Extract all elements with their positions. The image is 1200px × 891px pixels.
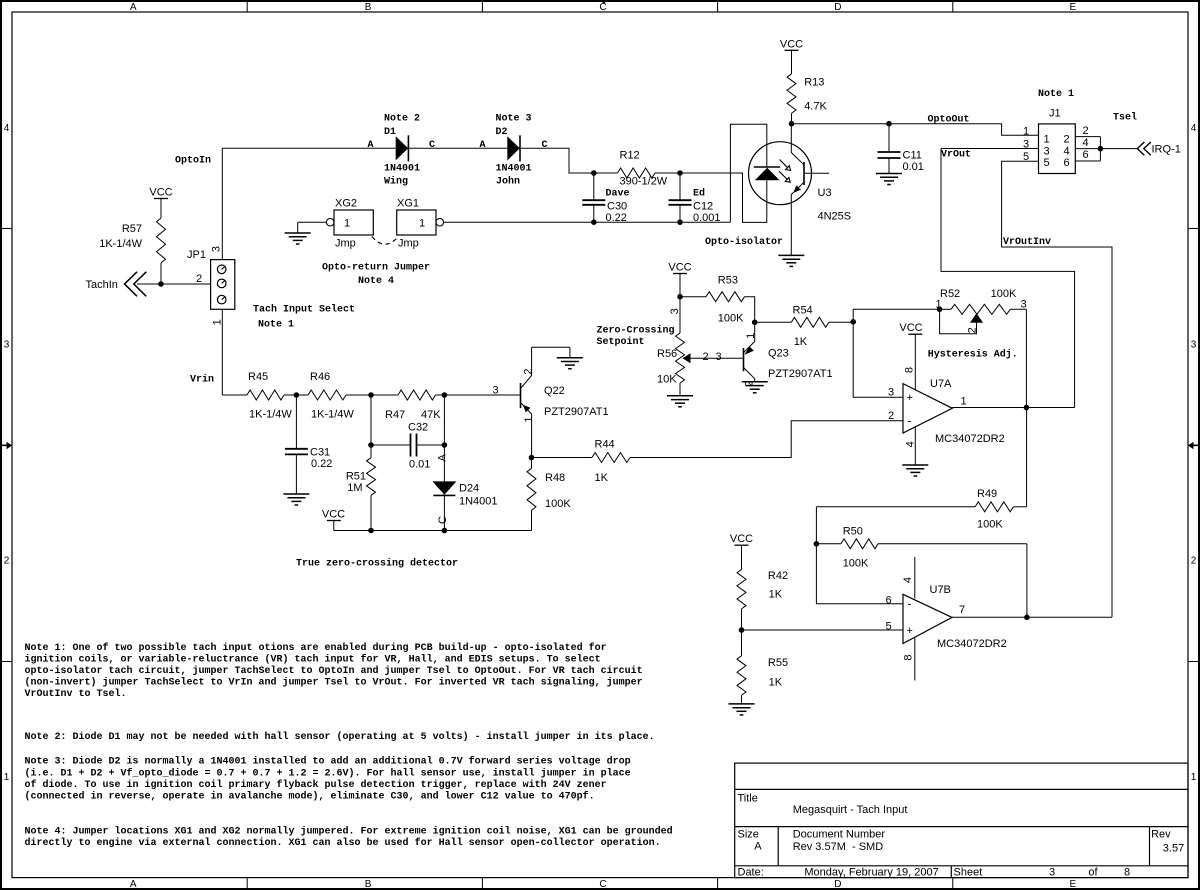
svg-text:Document Number: Document Number [793, 829, 886, 841]
wire VCC to R13 [791, 50, 793, 74]
svg-text:Megasquirt - Tach Input: Megasquirt - Tach Input [793, 804, 908, 816]
svg-text:R52: R52 [940, 288, 960, 300]
svg-text:D: D [834, 2, 841, 13]
transistor Q23 [743, 348, 745, 371]
svg-text:D24: D24 [459, 483, 479, 495]
svg-text:ignition coils, or variable-re: ignition coils, or variable-reluctrance … [25, 654, 601, 666]
svg-text:C: C [429, 140, 435, 151]
ground (C31) [283, 493, 309, 495]
svg-text:PZT2907AT1: PZT2907AT1 [768, 368, 833, 380]
wire D1 to D2 [408, 147, 507, 149]
svg-text:R48: R48 [545, 472, 565, 484]
svg-text:C: C [541, 140, 547, 151]
svg-text:(connected in reverse, operate: (connected in reverse, operate in avalan… [25, 790, 595, 802]
svg-text:J1: J1 [1049, 108, 1061, 120]
svg-text:R51: R51 [346, 471, 366, 483]
wire J1 pin5 lead / VrOutInv [1002, 161, 1112, 617]
svg-text:VrOutInv: VrOutInv [1003, 237, 1051, 248]
svg-text:4: 4 [1063, 145, 1069, 157]
svg-text:3: 3 [715, 351, 721, 363]
svg-text:100K: 100K [545, 498, 571, 510]
svg-text:(non-invert) jumper TachSelect: (non-invert) jumper TachSelect to VrIn a… [25, 677, 643, 689]
svg-text:C12: C12 [693, 201, 713, 213]
svg-text:R13: R13 [804, 77, 824, 89]
node R53/R56 junction [677, 294, 683, 300]
svg-text:IRQ-1: IRQ-1 [1152, 144, 1181, 156]
svg-text:Date:: Date: [738, 866, 764, 878]
border zone tick marks [246, 2, 248, 12]
svg-text:Opto-return Jumper: Opto-return Jumper [322, 263, 430, 274]
ground (C11) [876, 173, 902, 175]
svg-text:A: A [754, 841, 762, 853]
svg-text:VrOut: VrOut [941, 149, 971, 160]
svg-text:4: 4 [905, 441, 917, 447]
wire J1 tsel bus [1099, 137, 1101, 161]
capacitor C12 [679, 173, 681, 200]
diode D2 [507, 136, 520, 160]
svg-text:VCC: VCC [149, 187, 172, 199]
svg-text:3: 3 [888, 387, 894, 399]
svg-text:390-1/2W: 390-1/2W [620, 176, 668, 188]
svg-text:2: 2 [1063, 134, 1069, 146]
wire R49/R50 node to pin6 [816, 544, 903, 604]
svg-text:Tsel: Tsel [1113, 111, 1137, 123]
svg-text:2: 2 [702, 351, 708, 363]
svg-text:100K: 100K [718, 312, 744, 324]
svg-text:2: 2 [1082, 125, 1088, 137]
potentiometer R56 wiper [683, 353, 691, 363]
svg-text:2: 2 [196, 273, 202, 285]
svg-text:-: - [908, 414, 912, 428]
svg-text:A: A [367, 140, 373, 151]
svg-text:R57: R57 [122, 223, 142, 235]
resistor R44 [592, 453, 630, 463]
node R51/C32 top junction [368, 392, 374, 398]
svg-text:C31: C31 [310, 447, 330, 459]
svg-text:+: + [907, 392, 913, 404]
resistor R50 [816, 543, 841, 545]
node U7A output junction [1024, 405, 1030, 411]
svg-text:Dave: Dave [606, 189, 630, 200]
resistor R57 [157, 218, 166, 263]
svg-text:2: 2 [967, 327, 979, 333]
svg-text:3: 3 [492, 385, 498, 397]
node C30 bottom junction [591, 219, 597, 225]
svg-text:1: 1 [212, 319, 224, 325]
svg-text:MC34072DR2: MC34072DR2 [935, 433, 1005, 445]
svg-text:1: 1 [1191, 772, 1197, 783]
svg-text:-: - [908, 597, 912, 611]
capacitor C30 [593, 173, 595, 200]
wire VrOut feedback loop [941, 149, 1075, 408]
svg-text:1K: 1K [595, 472, 609, 484]
svg-text:E: E [1069, 2, 1076, 13]
wire D24 cathode [443, 495, 445, 530]
opto U3 light arrow 2 [779, 171, 788, 180]
jumper XG1 pin circle [436, 218, 444, 226]
svg-text:8: 8 [1124, 866, 1130, 878]
svg-text:D1: D1 [384, 127, 396, 138]
resistor R54 [791, 317, 828, 327]
resistor R42 [737, 569, 746, 608]
svg-text:1: 1 [960, 396, 966, 408]
node R52 pin1 junction [937, 307, 943, 313]
svg-text:5: 5 [1043, 157, 1049, 169]
node C12 bottom junction [677, 219, 683, 225]
svg-text:Note 1: Note 1 [258, 320, 294, 331]
svg-text:JP1: JP1 [187, 249, 206, 261]
svg-text:R49: R49 [977, 488, 997, 500]
svg-text:Sheet: Sheet [954, 866, 983, 878]
svg-text:1: 1 [745, 333, 757, 339]
svg-text:3: 3 [669, 308, 681, 314]
svg-text:6: 6 [1082, 149, 1088, 161]
jumper XG2 pin circle [326, 218, 334, 226]
svg-text:1: 1 [4, 772, 10, 783]
svg-text:1K: 1K [769, 589, 783, 601]
svg-text:XG1: XG1 [397, 197, 419, 209]
svg-text:Note 4: Note 4 [358, 276, 394, 287]
svg-text:MC34072DR2: MC34072DR2 [937, 638, 1007, 650]
svg-text:6: 6 [1063, 157, 1069, 169]
wire R50 down to U7B output [1026, 544, 1028, 618]
svg-text:U7B: U7B [930, 584, 951, 596]
svg-text:C11: C11 [903, 149, 922, 161]
svg-text:Jmp: Jmp [335, 237, 356, 249]
svg-text:R47: R47 [385, 409, 405, 421]
node C31 junction [294, 392, 300, 398]
node C30 top junction [591, 170, 597, 176]
svg-text:B: B [365, 2, 372, 13]
svg-text:R12: R12 [620, 150, 640, 162]
node C12 top junction [677, 170, 683, 176]
svg-text:R42: R42 [768, 570, 788, 582]
ground (XG2) [297, 222, 299, 233]
svg-text:Q22: Q22 [544, 385, 565, 397]
svg-text:3: 3 [1191, 339, 1197, 350]
node R42/R55 junction [739, 627, 745, 633]
node R51 bottom junction [368, 528, 374, 534]
potentiometer R52 [940, 308, 951, 310]
wire J1 pin1 lead [1002, 124, 1039, 136]
opto-isolator U3 circle [749, 142, 812, 205]
svg-text:R56: R56 [657, 348, 677, 360]
svg-text:Note 4: Jumper locations XG1 a: Note 4: Jumper locations XG1 and XG2 nor… [25, 825, 673, 837]
svg-text:4: 4 [902, 577, 914, 583]
svg-text:C30: C30 [607, 201, 627, 213]
wire XG1 to opto LED cathode return [444, 221, 731, 223]
svg-text:Opto-isolator: Opto-isolator [705, 236, 783, 248]
wire R13 to OptoOut node [791, 113, 793, 123]
svg-text:2: 2 [888, 410, 894, 422]
svg-text:100K: 100K [977, 519, 1003, 531]
svg-text:1: 1 [419, 218, 425, 230]
port IRQ-1 chevron [1137, 142, 1144, 155]
resistor R55 [741, 630, 743, 656]
svg-text:VCC: VCC [668, 262, 691, 274]
svg-text:R44: R44 [595, 439, 615, 451]
node D24/C32 junction [442, 442, 448, 448]
svg-text:0.22: 0.22 [311, 458, 332, 470]
node R54/Q23 junction [752, 320, 758, 326]
svg-text:Note 3: Note 3 [496, 113, 532, 124]
wire J1 pin4 lead [1075, 148, 1100, 150]
wire R12 row to LED anode jog [680, 173, 767, 222]
resistor R53 [706, 292, 745, 302]
svg-text:(i.e. D1 + D2 + Vf_opto_diode: (i.e. D1 + D2 + Vf_opto_diode = 0.7 + 0.… [25, 767, 631, 779]
wire VrOut to J1 pin3 [941, 148, 1039, 150]
svg-text:R50: R50 [843, 526, 863, 538]
svg-text:Note 1: One of two possible ta: Note 1: One of two possible tach input o… [25, 642, 607, 654]
wire R51 node down [370, 395, 372, 445]
connector J1 body [1039, 124, 1076, 174]
svg-text:Hysteresis Adj.: Hysteresis Adj. [928, 349, 1018, 361]
svg-text:R45: R45 [248, 371, 268, 383]
svg-text:1K-1/4W: 1K-1/4W [99, 238, 142, 250]
diode D1 [396, 136, 409, 160]
ground (U7A pin4) [902, 464, 928, 466]
svg-text:1K: 1K [794, 336, 808, 348]
wire +input node down to pin3 [853, 322, 903, 397]
svg-text:8: 8 [904, 367, 916, 373]
wire TachIn to JP1 pin2 [137, 283, 211, 285]
svg-text:+: + [907, 625, 913, 637]
wire VCC to R42 [741, 545, 743, 569]
svg-text:3.57: 3.57 [1163, 843, 1184, 855]
svg-text:3: 3 [1023, 139, 1029, 151]
svg-text:VCC: VCC [730, 533, 753, 545]
resistor R13 [787, 74, 796, 113]
svg-text:Ed: Ed [693, 188, 705, 200]
svg-text:3: 3 [211, 246, 223, 252]
svg-text:R54: R54 [793, 305, 813, 317]
ground (R55) [729, 703, 755, 705]
svg-text:VCC: VCC [322, 509, 345, 521]
svg-text:1: 1 [935, 299, 941, 311]
svg-text:Rev: Rev [1151, 829, 1171, 841]
wire R44 left [532, 457, 593, 459]
wire R47 to Q22 base [436, 394, 521, 396]
svg-text:2: 2 [4, 556, 10, 567]
svg-text:VrOutInv to Tsel.: VrOutInv to Tsel. [25, 688, 127, 700]
svg-text:D: D [834, 879, 841, 890]
wire U7A out down to R49 [1026, 408, 1028, 507]
svg-text:OptoIn: OptoIn [175, 156, 211, 167]
wire Q22 collector to ground [532, 346, 570, 348]
wire R52 pin3 to output [1025, 309, 1027, 407]
resistor R12 [618, 168, 655, 178]
svg-text:directly to engine via externa: directly to engine via external connecti… [25, 837, 661, 849]
op-amp U7B [903, 594, 952, 643]
resistor R47 [398, 390, 435, 400]
svg-text:VCC: VCC [780, 38, 803, 50]
opto U3 light arrow 1 [780, 160, 789, 169]
svg-text:Q23: Q23 [768, 348, 789, 360]
svg-text:C32: C32 [408, 422, 428, 434]
node R54/R52 junction [850, 319, 856, 325]
node D24 top junction [442, 392, 448, 398]
connector JP1 body [211, 260, 235, 310]
wire VCC to U7A pin8 [914, 334, 916, 390]
capacitor C11 [888, 124, 890, 152]
wire U7B output [952, 616, 1112, 618]
connector JP1 pin circles [217, 265, 226, 274]
opto U3 LED [754, 166, 780, 168]
svg-text:1N4001: 1N4001 [496, 163, 532, 174]
wire VCC to R57 [160, 199, 162, 219]
wire U7B pin5 [742, 629, 904, 631]
resistor R51 [370, 445, 372, 458]
svg-text:5: 5 [885, 621, 891, 633]
ground (U3 emitter) [778, 254, 804, 256]
svg-text:2: 2 [522, 368, 534, 374]
svg-text:OptoOut: OptoOut [928, 115, 970, 126]
port TachIn chevron [125, 272, 138, 297]
wire U7A pin4 to ground [914, 427, 916, 465]
svg-text:C: C [599, 879, 606, 890]
svg-text:C: C [599, 2, 606, 13]
svg-text:John: John [496, 175, 520, 187]
wire U7B pin4 stub [914, 557, 916, 599]
svg-text:Wing: Wing [384, 175, 408, 187]
svg-text:4: 4 [1191, 123, 1197, 134]
svg-text:R53: R53 [718, 275, 738, 287]
wire JP1 pin1 down [221, 309, 223, 395]
svg-text:U3: U3 [818, 187, 832, 199]
ground (Q23 collector) [742, 381, 768, 383]
node R49/R50 junction [814, 541, 820, 547]
border centerline arrow right [1193, 445, 1200, 447]
node Tsel junction [1098, 146, 1104, 152]
border centerline arrow top [600, 0, 607, 4]
svg-text:R46: R46 [310, 371, 330, 383]
wire VCC rail [333, 521, 335, 531]
svg-text:3: 3 [1049, 866, 1055, 878]
svg-text:1: 1 [1043, 134, 1049, 146]
ground (R56) [667, 395, 693, 397]
svg-text:Size: Size [738, 829, 759, 841]
svg-text:4N25S: 4N25S [818, 211, 852, 223]
svg-text:Note 2: Note 2 [384, 113, 420, 124]
wire OptoOut horizontal [792, 123, 1002, 125]
wire C30 junction to R12 [594, 172, 618, 174]
svg-text:Note 1: Note 1 [1038, 89, 1074, 100]
diode D24 [432, 481, 456, 494]
svg-text:4.7K: 4.7K [804, 101, 827, 113]
wire JP1 pin3 up (OptoIn) [221, 148, 223, 259]
svg-text:6: 6 [885, 595, 891, 607]
wire J1 pin6 lead [1075, 160, 1100, 162]
svg-text:1K: 1K [769, 677, 783, 689]
svg-text:1K-1/4W: 1K-1/4W [249, 409, 292, 421]
svg-text:Setpoint: Setpoint [597, 336, 645, 348]
svg-text:0.01: 0.01 [409, 459, 430, 471]
svg-text:R55: R55 [768, 657, 788, 669]
svg-text:3: 3 [4, 339, 10, 350]
wire D2 to R12 row [520, 148, 594, 173]
svg-text:B: B [365, 879, 372, 890]
svg-text:U7A: U7A [930, 378, 952, 390]
jumper XG1 body [397, 210, 436, 235]
svg-text:opto-isolator tach circuit, ju: opto-isolator tach circuit, jumper TachS… [25, 665, 643, 677]
svg-text:7: 7 [959, 604, 965, 616]
transistor Q22 [520, 383, 522, 408]
svg-text:1M: 1M [347, 482, 362, 494]
op-amp U7A [903, 384, 952, 433]
svg-text:4: 4 [1082, 137, 1088, 149]
wire R12 to C12 junction [655, 172, 680, 174]
svg-text:100K: 100K [843, 558, 869, 570]
resistor R45 [247, 390, 284, 400]
svg-text:of: of [1088, 866, 1098, 878]
wire Tsel to IRQ-1 [1100, 148, 1137, 150]
resistor R48 [531, 458, 533, 469]
svg-text:1: 1 [344, 218, 350, 230]
svg-text:C: C [437, 516, 449, 524]
svg-text:0.01: 0.01 [903, 161, 924, 173]
svg-text:Zero-Crossing: Zero-Crossing [597, 325, 675, 337]
svg-text:Note 2: Diode D1 may not be ne: Note 2: Diode D1 may not be needed with … [25, 731, 655, 743]
wire dashed XG2-XG1 link [372, 237, 399, 245]
svg-text:Tach Input Select: Tach Input Select [253, 304, 355, 316]
wire Vrin to R45 [222, 394, 247, 396]
svg-text:2: 2 [1191, 556, 1197, 567]
wire LED cathode return U-path [730, 124, 766, 222]
wire U7B pin8 stub [914, 638, 916, 681]
node Q22 emitter/R48/R44 junction [529, 455, 535, 461]
svg-text:5: 5 [1023, 151, 1029, 163]
svg-text:TachIn: TachIn [86, 279, 118, 291]
border centerline arrow left [0, 445, 7, 447]
svg-text:Title: Title [738, 793, 758, 805]
svg-text:1: 1 [523, 416, 535, 422]
svg-text:of diode. To use in ignition c: of diode. To use in ignition coil primar… [25, 779, 607, 791]
wire R46 to R51 node [346, 394, 398, 396]
wire R53 to Q23 emitter node [745, 297, 755, 323]
opto U3 phototransistor [803, 162, 805, 185]
svg-text:1: 1 [1023, 125, 1029, 137]
wire R52 pin1 link [853, 309, 939, 322]
wire R49 down to R50 node [815, 507, 817, 544]
node R51/C32 junction [368, 442, 374, 448]
resistor R49 [1013, 506, 1026, 508]
wire D24 anode [443, 395, 445, 481]
svg-text:Vrin: Vrin [190, 374, 214, 386]
svg-text:PZT2907AT1: PZT2907AT1 [544, 406, 609, 418]
svg-text:3: 3 [1020, 299, 1026, 311]
wire J1 pin2 lead [1075, 136, 1100, 138]
wire OptoIn horizontal [222, 147, 395, 149]
wire R57 to TachIn node [160, 263, 162, 284]
svg-text:A: A [130, 2, 137, 13]
potentiometer R56 [679, 297, 681, 333]
node C11 junction [886, 121, 892, 127]
title block frame [735, 763, 1188, 878]
svg-text:A: A [437, 453, 449, 461]
svg-text:True zero-crossing detector: True zero-crossing detector [296, 558, 458, 570]
svg-text:8: 8 [903, 654, 915, 660]
wire U7A output [952, 407, 1074, 409]
svg-text:100K: 100K [991, 288, 1017, 300]
svg-text:Monday, February 19, 2007: Monday, February 19, 2007 [804, 866, 938, 878]
svg-text:VCC: VCC [899, 322, 922, 334]
svg-text:3: 3 [1043, 145, 1049, 157]
svg-text:1N4001: 1N4001 [384, 163, 420, 174]
svg-text:D2: D2 [496, 127, 508, 138]
svg-text:E: E [1069, 879, 1076, 890]
resistor R46 [308, 390, 346, 400]
svg-text:47K: 47K [421, 409, 441, 421]
